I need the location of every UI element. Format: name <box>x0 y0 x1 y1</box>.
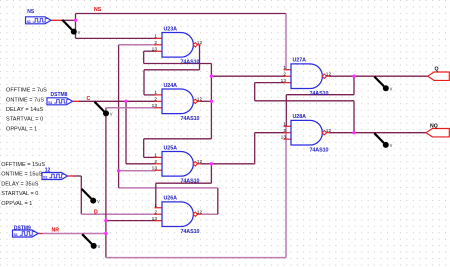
svg-text:74AS10: 74AS10 <box>181 229 200 235</box>
svg-text:OPPVAL = 1: OPPVAL = 1 <box>1 201 32 207</box>
svg-text:1: 1 <box>154 203 157 209</box>
svg-text:12: 12 <box>45 168 51 174</box>
svg-text:STARTVAL = 0: STARTVAL = 0 <box>1 191 38 197</box>
svg-text:1: 1 <box>154 153 157 159</box>
svg-text:U28A: U28A <box>293 114 307 120</box>
svg-text:12: 12 <box>197 209 203 215</box>
svg-text:1: 1 <box>283 65 286 71</box>
svg-text:Q: Q <box>435 67 439 73</box>
svg-text:1: 1 <box>154 34 157 40</box>
svg-text:74AS10: 74AS10 <box>181 59 200 65</box>
svg-text:2: 2 <box>283 128 286 134</box>
svg-text:DSTM9: DSTM9 <box>14 225 31 231</box>
svg-text:ONTIME = 7uS: ONTIME = 7uS <box>6 97 44 103</box>
svg-text:DELAY = 35uS: DELAY = 35uS <box>1 181 39 187</box>
svg-text:U25A: U25A <box>164 145 178 151</box>
svg-text:NS: NS <box>94 7 102 13</box>
svg-text:U23A: U23A <box>164 26 178 32</box>
svg-text:2: 2 <box>154 210 157 216</box>
svg-text:NS: NS <box>27 9 35 15</box>
svg-text:2: 2 <box>283 72 286 78</box>
svg-text:C: C <box>87 96 91 102</box>
svg-text:DELAY = 14uS: DELAY = 14uS <box>6 107 44 113</box>
svg-text:74AS10: 74AS10 <box>310 147 329 153</box>
svg-text:STARTVAL = 0: STARTVAL = 0 <box>6 117 43 123</box>
svg-text:74AS10: 74AS10 <box>310 91 329 97</box>
svg-text:13: 13 <box>281 78 287 84</box>
svg-text:OPPVAL = 1: OPPVAL = 1 <box>6 126 37 132</box>
svg-text:U24A: U24A <box>164 83 178 89</box>
svg-text:13: 13 <box>281 134 287 140</box>
svg-text:74AS10: 74AS10 <box>181 178 200 184</box>
svg-text:13: 13 <box>152 216 158 222</box>
svg-text:12: 12 <box>197 40 203 46</box>
svg-text:2: 2 <box>154 159 157 165</box>
svg-text:13: 13 <box>152 166 158 172</box>
svg-text:2: 2 <box>154 40 157 46</box>
svg-text:12: 12 <box>197 159 203 165</box>
svg-text:1: 1 <box>283 122 286 128</box>
svg-text:1: 1 <box>154 90 157 96</box>
svg-text:NQ: NQ <box>430 124 438 130</box>
svg-text:12: 12 <box>326 128 332 134</box>
svg-text:D: D <box>94 210 98 216</box>
svg-text:NR: NR <box>52 228 60 234</box>
svg-text:12: 12 <box>197 97 203 103</box>
svg-text:13: 13 <box>152 103 158 109</box>
svg-text:2: 2 <box>154 97 157 103</box>
svg-text:U26A: U26A <box>164 196 178 202</box>
svg-text:13: 13 <box>152 47 158 53</box>
svg-text:U27A: U27A <box>293 58 307 64</box>
svg-text:OFFTIME = 15uS: OFFTIME = 15uS <box>1 162 45 168</box>
svg-text:12: 12 <box>326 71 332 77</box>
svg-text:DSTM8: DSTM8 <box>51 92 68 98</box>
svg-text:OFFTIME = 7uS: OFFTIME = 7uS <box>6 88 47 94</box>
svg-text:ONTIME = 15uS: ONTIME = 15uS <box>1 172 42 178</box>
svg-text:74AS10: 74AS10 <box>181 116 200 122</box>
